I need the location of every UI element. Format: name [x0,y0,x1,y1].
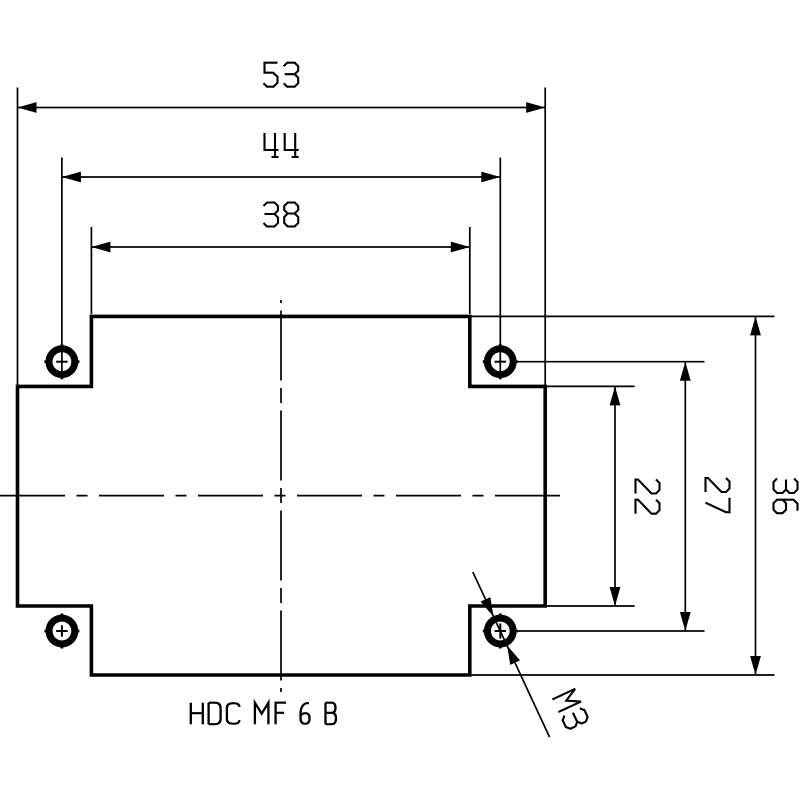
extension line 22 top [546,385,635,387]
dimension line 36 [750,316,761,675]
dim text 38 [264,203,299,227]
horizontal centerline [0,495,561,497]
vertical centerline [280,300,282,692]
extension line 53 left [17,88,19,387]
dimension line 53 [18,102,546,113]
hole top-left [44,344,79,379]
label M3 rotated [552,689,589,731]
body outline [18,316,546,675]
dimension line 27 [680,362,691,631]
extension line 53 right [544,88,546,387]
dimension line 44 [62,172,500,183]
dimension line 22 [610,386,621,606]
hole top-right [483,344,518,379]
extension line 38 left [90,227,92,314]
dimension line 38 [91,242,469,253]
title text HDC MF 6 B [191,703,336,725]
dim text 36 rotated [774,479,798,514]
dim text 53 [264,63,299,87]
extension line 22 bottom [546,605,635,607]
leader M3 [473,572,550,737]
extension line 36 top [470,315,775,317]
hole bottom-left [44,614,79,649]
hole bottom-right [483,614,518,649]
extension line 44 right [499,158,501,380]
extension line 44 left [61,158,63,380]
extension line 27 bottom [516,630,705,632]
extension line 38 right [469,227,471,314]
extension line 27 top [516,361,705,363]
dim text 27 rotated [706,478,730,512]
dim text 22 rotated [636,480,660,514]
dim text 44 [265,133,299,157]
extension line 36 bottom [470,674,775,676]
